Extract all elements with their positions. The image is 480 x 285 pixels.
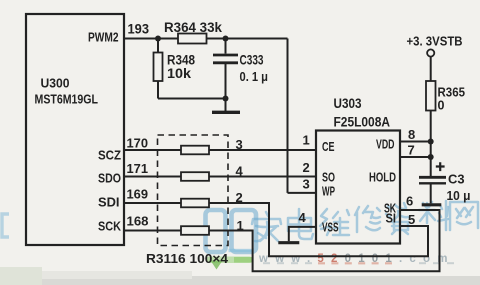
watermark char 4 (xiu) bbox=[355, 206, 380, 232]
svg-text:SCK: SCK bbox=[98, 219, 122, 234]
svg-text:VDD: VDD bbox=[376, 137, 395, 152]
watermark char 3 (wei) bbox=[320, 209, 349, 235]
wire SDI from U300 bbox=[124, 202, 181, 204]
svg-text:169: 169 bbox=[127, 187, 149, 202]
watermark partial logo at left edge bbox=[2, 214, 9, 237]
svg-text:2: 2 bbox=[303, 160, 310, 175]
ground of C3 bbox=[422, 203, 442, 206]
watermark char 7 (wang) bbox=[450, 202, 478, 230]
wire node to C333 bbox=[225, 39, 227, 54]
watermark char 6 (liao) bbox=[419, 201, 448, 230]
svg-text:C3: C3 bbox=[448, 173, 465, 187]
wire VDD pin 8 to rail bbox=[400, 141, 431, 143]
wire terminal to R365 bbox=[430, 57, 432, 81]
svg-text:MST6M19GL: MST6M19GL bbox=[35, 92, 99, 107]
svg-text:SO: SO bbox=[322, 170, 335, 185]
svg-text:VSS: VSS bbox=[322, 220, 339, 235]
watermark logo: open-book icon light blue bbox=[206, 210, 257, 252]
resistor R3116 element 1 body bbox=[181, 146, 209, 155]
watermark green arrow bbox=[211, 261, 223, 270]
svg-text:193: 193 bbox=[128, 22, 150, 37]
wire C3 to ground bbox=[430, 183, 432, 203]
svg-text:1: 1 bbox=[303, 133, 310, 148]
svg-text:0. 1 μ: 0. 1 μ bbox=[240, 69, 269, 84]
wire HOLD pin 7 to rail bbox=[400, 156, 431, 158]
svg-text:U303: U303 bbox=[334, 96, 362, 111]
wire SDO from U300 bbox=[124, 176, 181, 178]
resistor R3116 element 4 body bbox=[181, 226, 209, 235]
svg-text:3: 3 bbox=[303, 177, 310, 192]
svg-text:SDI: SDI bbox=[98, 195, 120, 210]
IC U303 F25L008A box bbox=[316, 131, 400, 244]
watermark char 5 (zi) bbox=[386, 203, 408, 234]
svg-text:R364 33k: R364 33k bbox=[164, 20, 222, 35]
resistor R348 body bbox=[154, 53, 163, 82]
svg-text:C333: C333 bbox=[240, 53, 264, 68]
watermark blue dash bbox=[229, 249, 253, 252]
wire WP stub to U303 pin 3 bbox=[288, 192, 317, 194]
node junction PWM2/R348 bbox=[155, 36, 161, 42]
resistor R3116 element 3 body bbox=[181, 199, 209, 208]
node junction R348/C333 ground net bbox=[223, 96, 229, 102]
ground of C333 bbox=[212, 111, 240, 114]
svg-text:F25L008A: F25L008A bbox=[334, 115, 391, 130]
IC U300 MST6M19GL box bbox=[26, 14, 124, 245]
capacitor C333 plates bbox=[213, 54, 238, 57]
svg-text:4: 4 bbox=[299, 210, 307, 225]
svg-text:SCZ: SCZ bbox=[98, 148, 121, 163]
wire node to R348 bbox=[157, 39, 159, 53]
terminal +3.3VSTB circle bbox=[427, 49, 434, 56]
svg-text:5: 5 bbox=[408, 212, 415, 227]
svg-text:168: 168 bbox=[127, 214, 149, 229]
watermark green band bbox=[206, 257, 253, 264]
wire CE net to U303 pin 1 bbox=[209, 149, 316, 151]
svg-text:CE: CE bbox=[322, 139, 335, 154]
wire SO net to U303 pin 2 bbox=[209, 176, 316, 178]
svg-text:U300: U300 bbox=[41, 76, 70, 91]
svg-text:0: 0 bbox=[438, 99, 445, 113]
wire SCK to SK loop bbox=[209, 210, 440, 271]
svg-text:R365: R365 bbox=[438, 86, 466, 100]
wire R348 to bottom rail bbox=[157, 81, 159, 99]
watermark char 2 (dian) bbox=[288, 209, 313, 239]
wire VSS to ground bbox=[289, 227, 316, 241]
wire C333 to ground bbox=[225, 63, 227, 111]
wire SCZ from U300 bbox=[124, 149, 181, 151]
capacitor C3 plates bbox=[419, 176, 446, 179]
node junction HOLD/rail bbox=[428, 154, 434, 160]
svg-text:170: 170 bbox=[127, 136, 149, 151]
resistor network R3116 dashed box bbox=[158, 135, 229, 246]
svg-text:7: 7 bbox=[408, 143, 415, 158]
wire PWM2 from U300 pin 193 bbox=[124, 38, 178, 40]
resistor R365 body bbox=[426, 81, 436, 111]
svg-text:8: 8 bbox=[408, 127, 415, 142]
wire R348 bottom to C333 node bbox=[158, 98, 226, 100]
resistor R3116 element 2 body bbox=[181, 172, 209, 181]
svg-text:10 μ: 10 μ bbox=[447, 189, 471, 203]
svg-text:HOLD: HOLD bbox=[369, 170, 396, 185]
wire SCK from U300 bbox=[124, 230, 181, 232]
svg-text:10k: 10k bbox=[167, 66, 192, 81]
svg-text:PWM2: PWM2 bbox=[88, 30, 119, 45]
capacitor C3 plus sign bbox=[436, 162, 445, 171]
svg-text:R3116 100×4: R3116 100×4 bbox=[146, 251, 229, 266]
svg-text:171: 171 bbox=[127, 161, 149, 176]
ground of VSS bbox=[278, 241, 299, 244]
node junction VDD/rail bbox=[428, 139, 434, 145]
resistor R364 body bbox=[178, 34, 207, 44]
wire SDI to SI loop bbox=[209, 203, 428, 256]
wire PWM2 RC net down to WP pin 3 bbox=[287, 39, 289, 193]
wire R364 to corner bbox=[207, 38, 288, 40]
svg-text:6: 6 bbox=[406, 194, 413, 209]
svg-text:SDO: SDO bbox=[98, 171, 121, 186]
svg-text:+3. 3VSTB: +3. 3VSTB bbox=[407, 35, 463, 49]
wire R365 to C3 rail bbox=[430, 111, 432, 177]
svg-text:SI: SI bbox=[386, 211, 397, 226]
watermark char 1 (jia) bbox=[252, 212, 281, 241]
node junction R364/C333 bbox=[223, 36, 229, 42]
svg-text:WP: WP bbox=[322, 184, 335, 199]
